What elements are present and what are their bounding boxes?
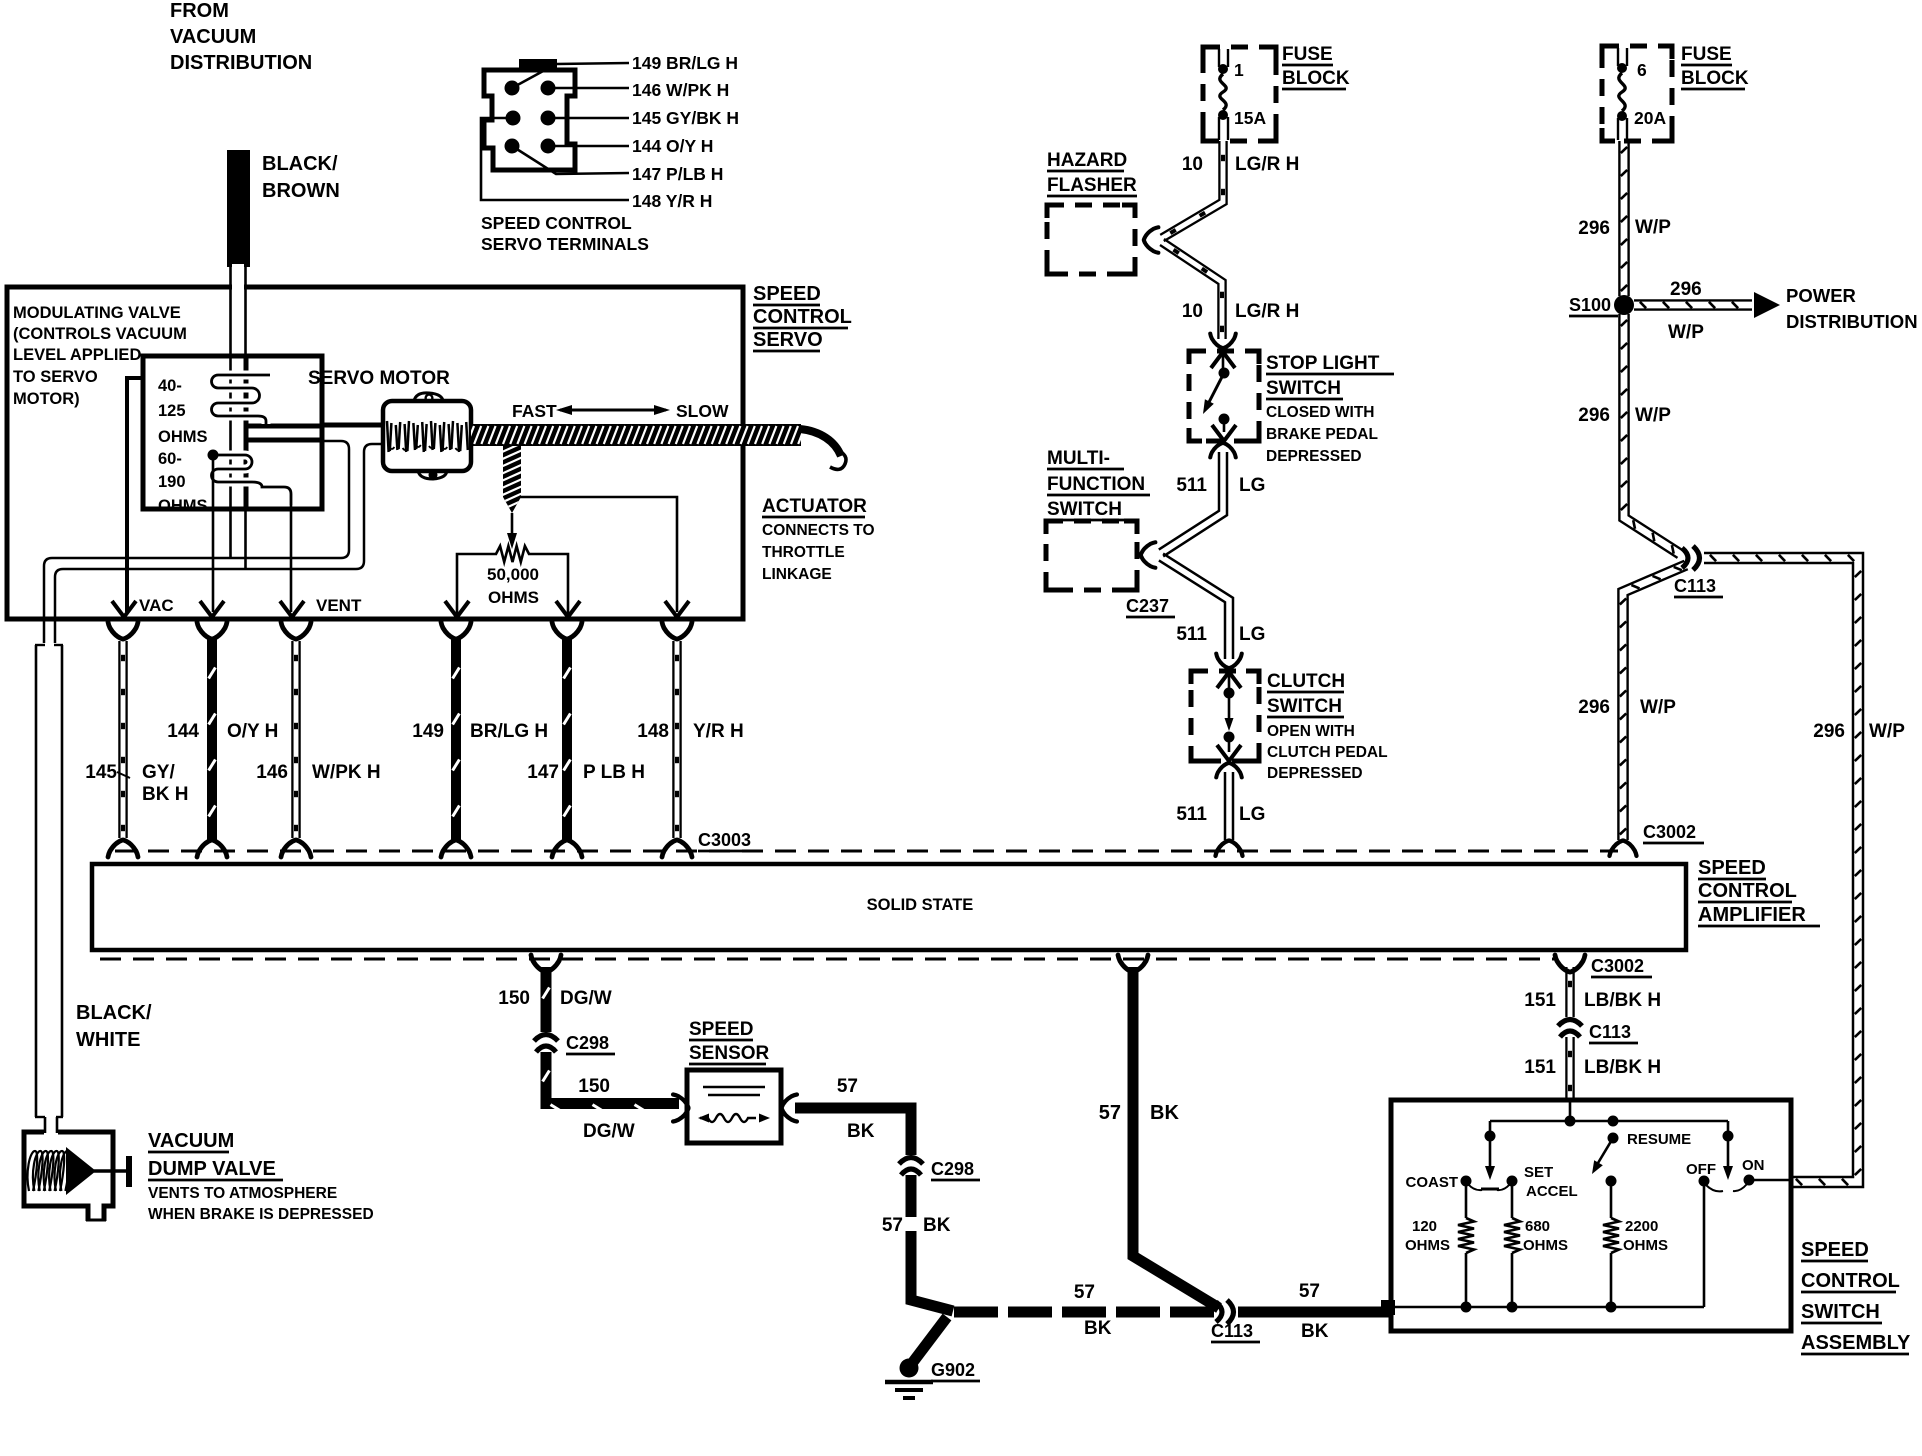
- svg-text:STOP LIGHT: STOP LIGHT: [1266, 353, 1380, 374]
- modulating valve box: [143, 356, 322, 509]
- svg-text:TO SERVO: TO SERVO: [13, 368, 98, 386]
- node S100 splice: [1614, 295, 1634, 315]
- wire ON to 296: [1754, 1179, 1791, 1182]
- svg-text:OHMS: OHMS: [488, 588, 539, 607]
- svg-text:148 Y/R H: 148 Y/R H: [632, 191, 712, 211]
- speed sensor box: [687, 1070, 781, 1143]
- connector flare hazard: [1144, 227, 1158, 253]
- svg-text:WHITE: WHITE: [76, 1029, 140, 1051]
- svg-text:15A: 15A: [1234, 108, 1266, 128]
- svg-text:125: 125: [158, 402, 186, 420]
- connector flares at C3003: [108, 840, 138, 857]
- svg-text:149 BR/LG H: 149 BR/LG H: [632, 53, 738, 73]
- wire 151 LB/BK H upper: [1565, 967, 1567, 1017]
- svg-text:511: 511: [1176, 804, 1207, 825]
- svg-text:OHMS: OHMS: [1523, 1237, 1568, 1254]
- svg-text:57: 57: [1074, 1282, 1095, 1303]
- svg-text:BLACK/: BLACK/: [76, 1002, 152, 1024]
- svg-text:296: 296: [1578, 218, 1610, 239]
- multifunction switch box: [1046, 521, 1137, 590]
- wire 149 BR/LG H: [451, 638, 461, 841]
- connector flare stop light bottom: [1210, 443, 1236, 457]
- wire 10 LG/R H fuse to hazard flasher: [1160, 141, 1219, 235]
- svg-text:SOLID STATE: SOLID STATE: [867, 896, 974, 914]
- svg-text:OHMS: OHMS: [1405, 1237, 1450, 1254]
- wire 296 to power distribution: [1634, 308, 1752, 310]
- connector C113 mid: [1558, 1020, 1582, 1038]
- svg-text:SWITCH: SWITCH: [1801, 1301, 1880, 1323]
- clutch switch box: [1191, 671, 1259, 761]
- svg-text:W/P: W/P: [1869, 721, 1905, 742]
- wire 296 W/P fuse to S100: [1618, 141, 1620, 296]
- svg-text:SLOW: SLOW: [676, 401, 729, 421]
- svg-text:148: 148: [637, 721, 669, 742]
- wire 144 tap to bottom edge: [212, 460, 215, 612]
- svg-text:DEPRESSED: DEPRESSED: [1267, 765, 1363, 782]
- svg-text:SWITCH: SWITCH: [1266, 378, 1341, 399]
- svg-text:S100: S100: [1569, 295, 1611, 315]
- wire 10 LG/R H flasher to stop light switch: [1160, 245, 1218, 339]
- wire 151 LB/BK H lower: [1565, 1037, 1567, 1098]
- svg-text:W/P: W/P: [1640, 697, 1676, 718]
- node coil tap junction: [208, 450, 219, 461]
- svg-text:SENSOR: SENSOR: [689, 1043, 770, 1064]
- wire 150 DG/W lower: [546, 1052, 679, 1104]
- svg-text:DG/W: DG/W: [560, 988, 612, 1009]
- wire 511 LG stop to multifunction: [1159, 452, 1219, 550]
- wire vacuum hose (valve to dump valve): [44, 441, 349, 643]
- connector C113 right: [1682, 546, 1700, 570]
- svg-text:SWITCH: SWITCH: [1047, 499, 1122, 520]
- resistor 680 ohms: [1511, 1186, 1514, 1218]
- svg-text:BROWN: BROWN: [262, 180, 340, 202]
- svg-text:C3002: C3002: [1591, 956, 1644, 976]
- svg-text:FLASHER: FLASHER: [1047, 175, 1137, 196]
- svg-text:BRAKE PEDAL: BRAKE PEDAL: [1266, 426, 1378, 443]
- wire 296 S100 to C113: [1619, 314, 1677, 558]
- wire 511 LG clutch to C3002: [1224, 772, 1227, 840]
- svg-text:CONNECTS TO: CONNECTS TO: [762, 522, 875, 539]
- svg-text:SPEED: SPEED: [1801, 1239, 1869, 1261]
- svg-text:SPEED: SPEED: [753, 283, 821, 305]
- pin lines: [548, 87, 629, 90]
- svg-text:BLOCK: BLOCK: [1282, 68, 1350, 89]
- clutch switch internals: [1217, 672, 1241, 688]
- svg-text:DISTRIBUTION: DISTRIBUTION: [1786, 311, 1918, 332]
- svg-text:296: 296: [1578, 405, 1610, 426]
- connector flare C3002: [1610, 841, 1637, 856]
- svg-text:C3002: C3002: [1643, 822, 1696, 842]
- svg-text:BLACK/: BLACK/: [262, 153, 338, 175]
- svg-text:147 P/LB H: 147 P/LB H: [632, 164, 723, 184]
- svg-text:CONTROL: CONTROL: [1801, 1270, 1900, 1292]
- svg-text:146: 146: [256, 762, 288, 783]
- svg-text:CONTROL: CONTROL: [753, 306, 852, 328]
- svg-text:SPEED: SPEED: [689, 1019, 753, 1040]
- svg-text:C298: C298: [566, 1033, 609, 1053]
- switch coast/set arm: [1489, 1121, 1492, 1140]
- wire 57 BK horizontal dashed: [954, 1307, 1216, 1318]
- svg-text:SERVO: SERVO: [753, 329, 823, 351]
- svg-text:Y/R H: Y/R H: [693, 721, 744, 742]
- connector flare stop light top: [1210, 334, 1236, 348]
- svg-text:DEPRESSED: DEPRESSED: [1266, 448, 1362, 465]
- svg-text:VENT: VENT: [316, 596, 362, 615]
- vacuum dump valve hose tube: [35, 645, 38, 1117]
- svg-text:BK: BK: [847, 1121, 875, 1142]
- wire 511 LG multifunction to clutch: [1159, 560, 1225, 659]
- connector flare 150 at amplifier: [531, 955, 561, 972]
- svg-text:SPEED: SPEED: [1698, 857, 1766, 879]
- svg-text:BK: BK: [1150, 1102, 1179, 1124]
- servo motor body: [383, 401, 471, 471]
- svg-text:ACCEL: ACCEL: [1526, 1183, 1578, 1200]
- wire actuator to 50k pot: [511, 513, 514, 535]
- svg-text:VACUUM: VACUUM: [148, 1130, 234, 1152]
- svg-text:BK H: BK H: [142, 784, 188, 805]
- wire black/brown vacuum supply bar: [227, 150, 250, 267]
- stop light switch box: [1189, 351, 1259, 441]
- wire 151 into box: [1569, 1100, 1572, 1121]
- connector flare 151 at amplifier: [1555, 955, 1585, 972]
- wire 146 W/PK H: [291, 641, 293, 838]
- svg-text:40-: 40-: [158, 377, 182, 395]
- svg-text:HAZARD: HAZARD: [1047, 150, 1127, 171]
- actuator vertical hatched bar: [503, 446, 521, 513]
- svg-text:ACTUATOR: ACTUATOR: [762, 496, 867, 517]
- svg-text:CLUTCH PEDAL: CLUTCH PEDAL: [1267, 744, 1388, 761]
- svg-text:FROM: FROM: [170, 0, 229, 22]
- connector C298: [534, 1035, 558, 1053]
- svg-text:G902: G902: [931, 1360, 975, 1380]
- svg-text:W/PK H: W/PK H: [312, 762, 381, 783]
- wire 57 BK sensor to C298: [795, 1108, 911, 1155]
- svg-text:6: 6: [1637, 60, 1647, 80]
- stop light switch internals: [1211, 352, 1235, 368]
- switch resume arm: [1608, 1133, 1619, 1144]
- svg-text:GY/: GY/: [142, 762, 175, 783]
- speed control servo terminals connector: [484, 70, 575, 170]
- svg-text:LG: LG: [1239, 804, 1265, 825]
- connector C298 lower: [899, 1158, 923, 1176]
- svg-text:20A: 20A: [1634, 108, 1666, 128]
- wire ground branch: [913, 1317, 947, 1362]
- fuse block 1: [1203, 47, 1276, 141]
- svg-text:190: 190: [158, 473, 186, 491]
- box speed control amplifier (solid state): [92, 864, 1686, 950]
- svg-text:SPEED CONTROL: SPEED CONTROL: [481, 213, 632, 233]
- svg-text:FAST: FAST: [512, 401, 557, 421]
- connector flares below servo box: [108, 622, 138, 639]
- svg-text:WHEN BRAKE IS DEPRESSED: WHEN BRAKE IS DEPRESSED: [148, 1206, 374, 1223]
- svg-text:(CONTROLS VACUUM: (CONTROLS VACUUM: [13, 325, 187, 343]
- svg-text:LINKAGE: LINKAGE: [762, 566, 832, 583]
- svg-text:147: 147: [527, 762, 559, 783]
- wire VENT passage: [290, 505, 293, 612]
- connector flare clutch bottom: [1216, 763, 1242, 777]
- wire 145 GY/BK H: [118, 641, 120, 838]
- svg-text:145: 145: [85, 762, 117, 783]
- svg-text:BLOCK: BLOCK: [1681, 68, 1749, 89]
- svg-text:C298: C298: [931, 1159, 974, 1179]
- connector flare multifunction: [1141, 542, 1155, 568]
- svg-text:57: 57: [837, 1076, 858, 1097]
- wire 57 BK dashed to ground area: [906, 1175, 917, 1262]
- svg-text:BK: BK: [1084, 1318, 1112, 1339]
- wire 57 BK to switch assembly: [1238, 1307, 1393, 1318]
- svg-text:BK: BK: [923, 1215, 951, 1236]
- svg-text:296: 296: [1578, 697, 1610, 718]
- svg-text:144: 144: [167, 721, 199, 742]
- switch off/on arm: [1727, 1121, 1730, 1140]
- speed sensor coil: [700, 1114, 756, 1122]
- svg-text:DUMP VALVE: DUMP VALVE: [148, 1158, 276, 1180]
- svg-text:146 W/PK H: 146 W/PK H: [632, 80, 729, 100]
- wire 144 O/Y H: [207, 638, 217, 841]
- svg-text:10: 10: [1182, 154, 1203, 175]
- ground G902: [900, 1359, 919, 1378]
- box speed control switch assembly: [1391, 1100, 1791, 1331]
- wire dashed line below amplifier: [100, 958, 1556, 961]
- svg-text:VAC: VAC: [139, 596, 174, 615]
- resistor 40-125 ohm coil: [211, 375, 270, 424]
- svg-text:296: 296: [1813, 721, 1845, 742]
- resistor 50,000 ohms: [457, 554, 497, 617]
- svg-text:OPEN WITH: OPEN WITH: [1267, 723, 1355, 740]
- wire 150 DG/W upper: [541, 967, 552, 1032]
- wire 148 from actuator tip: [519, 497, 677, 612]
- svg-text:OHMS: OHMS: [158, 428, 208, 446]
- svg-text:511: 511: [1176, 624, 1207, 645]
- svg-text:BK: BK: [1301, 1321, 1329, 1342]
- actuator hook end: [800, 429, 841, 456]
- wire top bus: [1490, 1120, 1728, 1123]
- svg-text:W/P: W/P: [1635, 217, 1671, 238]
- svg-text:57: 57: [1099, 1102, 1121, 1124]
- svg-text:1: 1: [1234, 60, 1244, 80]
- svg-text:FUSE: FUSE: [1681, 44, 1732, 65]
- svg-text:LG: LG: [1239, 475, 1265, 496]
- svg-text:CLOSED WITH: CLOSED WITH: [1266, 404, 1375, 421]
- svg-text:FUNCTION: FUNCTION: [1047, 474, 1145, 495]
- svg-text:P LB H: P LB H: [583, 762, 645, 783]
- connector flare 511 at amplifier: [1216, 841, 1243, 856]
- box speed control servo: [7, 287, 743, 619]
- svg-text:MULTI-: MULTI-: [1047, 448, 1110, 469]
- svg-text:LEVEL APPLIED: LEVEL APPLIED: [13, 346, 141, 364]
- svg-text:10: 10: [1182, 301, 1203, 322]
- svg-text:OHMS: OHMS: [158, 497, 208, 515]
- svg-text:SET: SET: [1524, 1164, 1553, 1181]
- svg-text:C113: C113: [1674, 576, 1716, 596]
- connector flare 57 at amplifier: [1118, 955, 1148, 972]
- svg-text:C237: C237: [1126, 596, 1169, 616]
- svg-text:CLUTCH: CLUTCH: [1267, 671, 1345, 692]
- svg-text:50,000: 50,000: [487, 565, 539, 584]
- svg-text:MOTOR): MOTOR): [13, 390, 80, 408]
- wire valve to servo motor: [322, 423, 385, 428]
- svg-text:OFF: OFF: [1686, 1161, 1716, 1178]
- svg-text:MODULATING VALVE: MODULATING VALVE: [13, 304, 181, 322]
- svg-text:151: 151: [1524, 1057, 1556, 1078]
- svg-text:C113: C113: [1211, 1321, 1253, 1341]
- svg-text:CONTROL: CONTROL: [1698, 880, 1797, 902]
- svg-text:150: 150: [498, 988, 530, 1009]
- svg-text:DG/W: DG/W: [583, 1121, 635, 1142]
- svg-text:SERVO TERMINALS: SERVO TERMINALS: [481, 234, 649, 254]
- svg-text:LG: LG: [1239, 624, 1265, 645]
- svg-text:COAST: COAST: [1406, 1174, 1459, 1191]
- svg-text:LG/R H: LG/R H: [1235, 301, 1299, 322]
- svg-text:145 GY/BK H: 145 GY/BK H: [632, 108, 739, 128]
- svg-text:120: 120: [1412, 1218, 1437, 1235]
- svg-text:296: 296: [1670, 279, 1702, 300]
- svg-text:SWITCH: SWITCH: [1267, 696, 1342, 717]
- servo motor coil: [387, 421, 389, 452]
- svg-text:C3003: C3003: [698, 830, 751, 850]
- svg-text:LB/BK H: LB/BK H: [1584, 1057, 1661, 1078]
- svg-text:POWER: POWER: [1786, 285, 1856, 306]
- wire VAC passage: [127, 378, 143, 612]
- resistor 2200 ohms: [1610, 1186, 1613, 1218]
- svg-text:C113: C113: [1589, 1022, 1631, 1042]
- svg-text:VACUUM: VACUUM: [170, 26, 256, 48]
- connector flare clutch top: [1216, 654, 1242, 668]
- svg-text:OHMS: OHMS: [1623, 1237, 1668, 1254]
- svg-text:FUSE: FUSE: [1282, 44, 1333, 65]
- wire 296 C113 to amplifier C3002: [1618, 561, 1684, 840]
- svg-text:RESUME: RESUME: [1627, 1131, 1691, 1148]
- hazard flasher box: [1047, 205, 1135, 274]
- svg-text:144 O/Y H: 144 O/Y H: [632, 136, 713, 156]
- fuse block 2: [1602, 46, 1672, 141]
- svg-text:W/P: W/P: [1635, 405, 1671, 426]
- dump valve spring: [28, 1151, 38, 1191]
- svg-text:150: 150: [578, 1076, 610, 1097]
- wire 57 BK from amplifier: [1133, 967, 1219, 1308]
- svg-text:ASSEMBLY: ASSEMBLY: [1801, 1332, 1911, 1354]
- svg-text:VENTS TO ATMOSPHERE: VENTS TO ATMOSPHERE: [148, 1185, 337, 1202]
- vacuum dump valve body: [24, 1132, 113, 1221]
- svg-text:57: 57: [1299, 1281, 1320, 1302]
- svg-text:W/P: W/P: [1668, 322, 1704, 343]
- dump valve plunger: [66, 1147, 96, 1195]
- svg-text:AMPLIFIER: AMPLIFIER: [1698, 904, 1806, 926]
- svg-text:60-: 60-: [158, 450, 182, 468]
- svg-text:2200: 2200: [1625, 1218, 1658, 1235]
- svg-text:SERVO MOTOR: SERVO MOTOR: [308, 368, 450, 389]
- resistor 60-190 ohm coil: [212, 455, 291, 505]
- svg-text:57: 57: [882, 1215, 903, 1236]
- wire 296 C113 to switch assembly ON: [1704, 553, 1863, 1187]
- svg-text:DISTRIBUTION: DISTRIBUTION: [170, 52, 312, 74]
- wire bottom bus: [1395, 1306, 1704, 1309]
- wire 148 Y/R H: [672, 641, 674, 838]
- connector C113 (black wires): [1216, 1300, 1234, 1324]
- resistor 120 ohms: [1465, 1186, 1468, 1218]
- wire 57 BK corner to horizontal: [911, 1258, 953, 1311]
- wire 147 P LB H: [562, 638, 572, 841]
- svg-text:BR/LG H: BR/LG H: [470, 721, 548, 742]
- svg-text:O/Y H: O/Y H: [227, 721, 278, 742]
- sensor connector flares: [673, 1095, 688, 1122]
- svg-text:LG/R H: LG/R H: [1235, 154, 1299, 175]
- svg-text:THROTTLE: THROTTLE: [762, 544, 845, 561]
- svg-text:LB/BK H: LB/BK H: [1584, 990, 1661, 1011]
- svg-text:149: 149: [412, 721, 444, 742]
- svg-text:511: 511: [1176, 475, 1207, 496]
- wire C3003 dashed line: [115, 850, 1618, 853]
- svg-text:680: 680: [1525, 1218, 1550, 1235]
- svg-text:151: 151: [1524, 990, 1556, 1011]
- svg-text:ON: ON: [1742, 1157, 1765, 1174]
